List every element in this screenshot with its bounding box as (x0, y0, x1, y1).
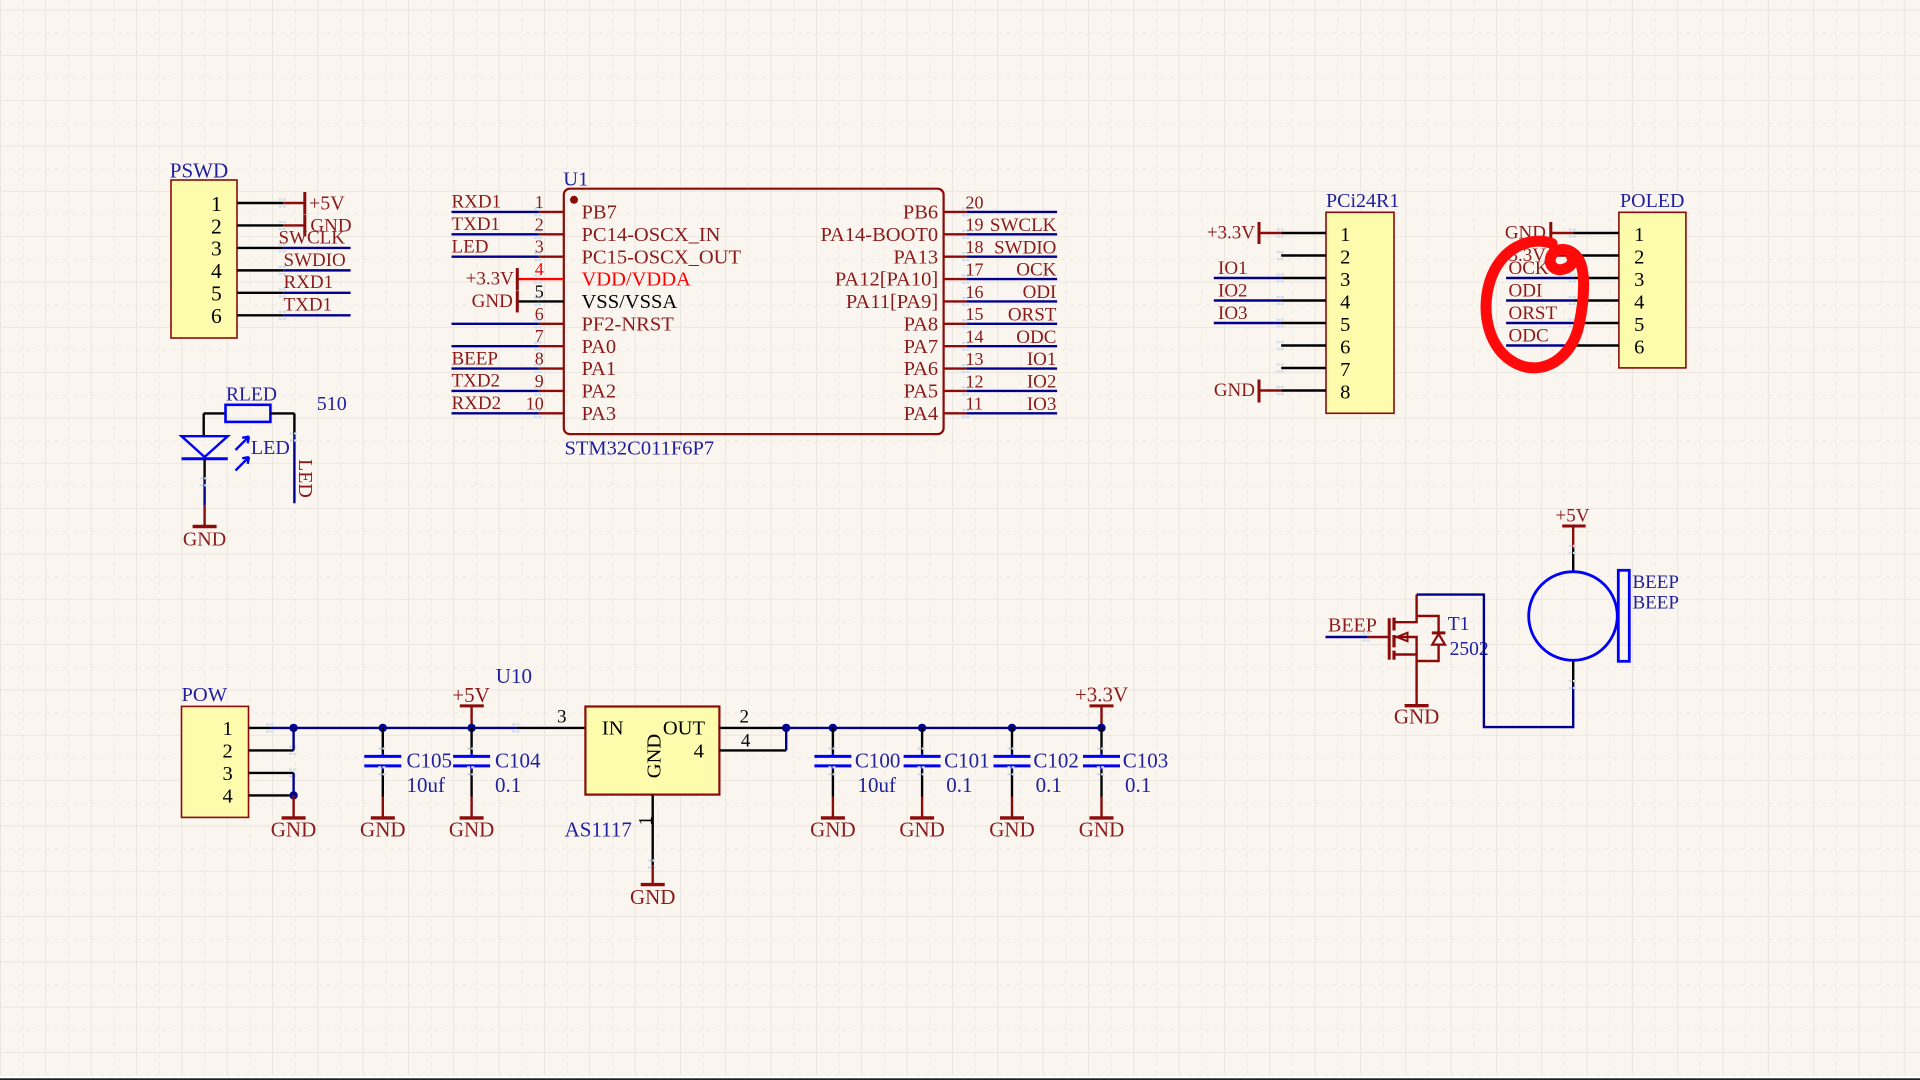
U1 pin 8 stub (539, 367, 564, 369)
U1 pin 6 stub (539, 323, 564, 325)
svg-text:2: 2 (211, 214, 222, 238)
U1 pin 9 stub (539, 390, 564, 392)
regulator U10 body (585, 707, 719, 795)
svg-text:GND: GND (472, 291, 513, 312)
svg-text:4: 4 (222, 786, 232, 808)
power port GND below U10 (630, 865, 676, 909)
resistor RLED body (226, 405, 271, 422)
svg-text:GND: GND (449, 818, 495, 842)
power port GND below C103 (1079, 797, 1125, 842)
LED D1 symbol (182, 436, 250, 470)
svg-text:PA0: PA0 (582, 336, 617, 358)
connector PSWD pin 5 wire (237, 292, 283, 294)
buzzer top stub (1572, 548, 1574, 572)
connector PCi24R1 body (1326, 212, 1394, 413)
svg-text:ODI: ODI (1023, 282, 1057, 303)
svg-text:+3.3V: +3.3V (466, 269, 514, 290)
capacitor C100 plates (814, 755, 851, 758)
wire at U1 pin 12 (967, 390, 1057, 392)
wire net TXD1 at U1 pin 2 (452, 233, 539, 235)
connector POLED body (1619, 212, 1686, 368)
svg-text:BEEP: BEEP (452, 348, 498, 369)
svg-text:BEEP: BEEP (1633, 572, 1679, 593)
capacitor C102 top lead (1011, 728, 1013, 753)
wire at U1 pin 13 (967, 367, 1057, 369)
junction node at U10 output (782, 724, 790, 732)
wire net RXD2 at U1 pin 10 (452, 412, 539, 414)
wire net ODC at POLED pin 6 (1506, 344, 1573, 346)
svg-text:AS1117: AS1117 (565, 818, 632, 842)
svg-text:SWDIO: SWDIO (284, 250, 346, 271)
connector PSWD pin 4 wire (237, 269, 283, 271)
svg-text:+5V: +5V (309, 192, 345, 214)
svg-text:13: 13 (966, 349, 984, 369)
svg-text:4: 4 (741, 731, 751, 752)
U1 pin 19 stub (944, 233, 967, 235)
wire at U1 pin 15 (967, 323, 1057, 325)
wire net ORST at POLED pin 5 (1506, 322, 1573, 324)
svg-text:1: 1 (222, 718, 232, 740)
wire net IO2 at PCi24R1 pin 4 (1214, 299, 1281, 301)
power port GND below POW (271, 795, 317, 841)
power port GND below C102 (989, 797, 1035, 842)
svg-text:STM32C011F6P7: STM32C011F6P7 (565, 438, 715, 460)
connector PCi24R1 pin 8 wire (1281, 389, 1326, 391)
svg-text:PB7: PB7 (582, 202, 617, 224)
capacitor C103 bottom lead (1100, 766, 1102, 770)
svg-text:C101: C101 (944, 749, 990, 773)
svg-text:C105: C105 (407, 749, 453, 773)
svg-text:RXD2: RXD2 (452, 393, 502, 414)
wire down from resistor right to net LED (293, 413, 295, 436)
wire at U1 pin 7 (452, 345, 539, 347)
svg-text:11: 11 (966, 394, 983, 414)
connector POLED pin 4 wire (1573, 299, 1619, 301)
power port GND at POLED (1505, 222, 1551, 244)
U1 pin 4 stub (539, 278, 564, 280)
power port +3.3V at PCi24R1 (1207, 222, 1259, 244)
svg-text:+3.3V: +3.3V (1075, 683, 1128, 707)
svg-text:VSS/VSSA: VSS/VSSA (582, 291, 678, 313)
wire POW pin3 to pin4 (292, 773, 294, 796)
svg-text:8: 8 (1340, 382, 1350, 404)
power port GND at U1 pin 5 (472, 290, 518, 312)
U1 pin 10 stub (539, 412, 564, 414)
svg-text:PA14-BOOT0: PA14-BOOT0 (820, 224, 938, 246)
svg-text:U10: U10 (496, 664, 532, 688)
svg-text:6: 6 (1634, 337, 1644, 359)
svg-text:RLED: RLED (226, 385, 277, 406)
connector PCi24R1 pin 3 wire (1281, 277, 1326, 279)
wire from LED cathode (203, 459, 205, 481)
U1 pin 13 stub (944, 367, 967, 369)
connector POW body (182, 706, 249, 817)
svg-text:PA12[PA10]: PA12[PA10] (835, 269, 938, 291)
svg-text:1: 1 (1340, 224, 1350, 246)
svg-text:4: 4 (1634, 292, 1644, 314)
buzzer BEEP body (1529, 570, 1630, 661)
svg-text:GND: GND (271, 818, 317, 842)
connector POW pin 1 wire (249, 727, 271, 729)
svg-text:LED: LED (251, 437, 290, 459)
wire at U1 pin 16 (967, 300, 1057, 302)
svg-text:PB6: PB6 (903, 202, 938, 224)
wire at U1 pin 20 (967, 211, 1057, 213)
connector POLED pin 3 wire (1573, 277, 1619, 279)
svg-text:GND: GND (360, 818, 406, 842)
svg-text:BEEP: BEEP (1633, 593, 1679, 614)
wire at U1 pin 19 (967, 233, 1057, 235)
U1 pin 11 stub (944, 412, 967, 414)
connector PSWD pin 3 wire (237, 247, 283, 249)
U10 GND pin wire (652, 795, 654, 866)
svg-text:PA3: PA3 (582, 403, 617, 425)
power port GND below LED (183, 505, 226, 551)
capacitor C103 plates (1083, 755, 1120, 758)
wire +5V rail (271, 727, 517, 729)
svg-text:GND: GND (644, 734, 666, 778)
connector PCi24R1 pin 6 wire (1281, 344, 1326, 346)
wire net SWCLK at PSWD pin 3 (283, 247, 350, 249)
U1 pin 14 stub (944, 345, 967, 347)
wire +3.3V to PCi24R1 pin 1 (1259, 232, 1281, 234)
capacitor C103 top lead (1100, 728, 1102, 753)
svg-text:IO1: IO1 (1218, 258, 1248, 279)
wire net BEEP (1326, 636, 1368, 638)
junction node at C104 (467, 724, 475, 732)
svg-text:3: 3 (1634, 269, 1644, 291)
wire at U1 pin 11 (967, 412, 1057, 414)
wire down to LED anode (202, 413, 204, 436)
svg-text:3: 3 (222, 763, 232, 785)
wire net SWDIO at PSWD pin 4 (283, 269, 350, 271)
svg-text:12: 12 (966, 371, 984, 391)
svg-text:TXD2: TXD2 (452, 371, 501, 392)
svg-text:GND: GND (989, 818, 1035, 842)
wire at U1 pin 14 (967, 345, 1057, 347)
wire U10 pin4 up to out rail (785, 728, 787, 751)
wire GND to U1 pin 5 (517, 300, 539, 302)
svg-text:T1: T1 (1448, 614, 1470, 635)
capacitor C100 top lead (832, 728, 834, 753)
wire from resistor RLED right (270, 412, 294, 414)
wire at U1 pin 6 (452, 323, 539, 325)
wire net IO3 at PCi24R1 pin 5 (1214, 322, 1281, 324)
svg-text:1: 1 (535, 192, 544, 212)
svg-text:+5V: +5V (1556, 506, 1590, 527)
svg-text:ORST: ORST (1008, 304, 1057, 325)
svg-text:6: 6 (1340, 337, 1350, 359)
connector POW pin 4 wire (249, 794, 294, 796)
power port GND at PSWD pin 2 (305, 214, 352, 236)
svg-text:15: 15 (966, 304, 984, 324)
svg-text:4: 4 (535, 259, 544, 279)
svg-text:SWCLK: SWCLK (990, 215, 1057, 236)
power port GND below C101 (899, 797, 945, 842)
U1 pin 18 stub (944, 255, 967, 257)
svg-text:5: 5 (1634, 314, 1644, 336)
svg-text:POW: POW (182, 684, 228, 706)
svg-text:OUT: OUT (663, 718, 706, 740)
wire +3.3V output rail (786, 727, 1101, 729)
svg-text:GND: GND (183, 529, 226, 551)
svg-text:10uf: 10uf (858, 773, 897, 797)
svg-text:SWCLK: SWCLK (279, 227, 346, 248)
U1 pin 17 stub (944, 278, 967, 280)
svg-text:PA1: PA1 (582, 358, 617, 380)
svg-text:LED: LED (294, 459, 316, 498)
svg-text:7: 7 (1340, 359, 1350, 381)
svg-text:2: 2 (1340, 247, 1350, 269)
svg-text:LED: LED (452, 236, 489, 257)
svg-text:C102: C102 (1033, 749, 1079, 773)
svg-text:VDD/VDDA: VDD/VDDA (582, 269, 692, 291)
svg-text:3: 3 (1340, 269, 1350, 291)
svg-text:2: 2 (222, 741, 232, 763)
svg-text:7: 7 (535, 326, 544, 346)
buzzer bottom stub (1572, 660, 1574, 685)
connector PSWD pin 1 wire (237, 202, 283, 204)
svg-text:ODC: ODC (1016, 327, 1056, 348)
svg-text:GND: GND (630, 885, 676, 909)
svg-text:PC15-OSCX_OUT: PC15-OSCX_OUT (582, 246, 742, 268)
junction node at C103 (1097, 724, 1105, 732)
wire GND to PCi24R1 pin 8 (1259, 389, 1281, 391)
svg-text:19: 19 (966, 215, 984, 235)
svg-text:IO3: IO3 (1027, 394, 1057, 415)
connector POLED pin 6 wire (1573, 344, 1619, 346)
U1 pin 12 stub (944, 390, 967, 392)
svg-text:U1: U1 (563, 168, 588, 190)
wire net RXD1 at U1 pin 1 (452, 211, 539, 213)
svg-text:ORST: ORST (1509, 303, 1558, 324)
capacitor C102 plates (994, 755, 1031, 758)
connector PSWD body (171, 180, 237, 338)
capacitor C104 plates (453, 755, 490, 758)
U10 pin 2 wire OUT (719, 727, 786, 729)
U1 pin 2 stub (539, 233, 564, 235)
svg-text:10: 10 (526, 393, 544, 413)
junction node at POW pin4 (289, 791, 297, 799)
svg-text:GND: GND (1214, 380, 1255, 401)
junction node at C100 (829, 724, 837, 732)
svg-text:0.1: 0.1 (946, 773, 972, 797)
svg-text:8: 8 (535, 349, 544, 369)
connector PCi24R1 pin 7 wire (1281, 367, 1326, 369)
wire at U1 pin 17 (967, 278, 1057, 280)
power port +3.3V above C103 (1075, 683, 1128, 728)
capacitor C104 top lead (470, 728, 472, 753)
junction node at POW pin1 (289, 724, 297, 732)
svg-text:PA11[PA9]: PA11[PA9] (846, 291, 938, 313)
power port GND below C104 (449, 797, 495, 842)
svg-text:C100: C100 (855, 749, 901, 773)
svg-text:5: 5 (211, 282, 222, 306)
svg-text:6: 6 (535, 304, 544, 324)
svg-text:10uf: 10uf (407, 773, 446, 797)
wire BEEP to T1 gate (1367, 636, 1388, 638)
svg-text:0.1: 0.1 (495, 773, 521, 797)
svg-text:2: 2 (535, 214, 544, 234)
svg-text:20: 20 (966, 192, 984, 212)
svg-text:5: 5 (535, 281, 544, 301)
svg-text:PA6: PA6 (904, 358, 939, 380)
connector PSWD pin 2 wire (237, 224, 283, 226)
connector PCi24R1 pin 1 wire (1281, 232, 1326, 234)
wire net LED vertical (293, 436, 295, 503)
svg-text:IO2: IO2 (1027, 372, 1057, 393)
svg-text:4: 4 (694, 740, 704, 762)
junction node at C102 (1008, 724, 1016, 732)
svg-text:4: 4 (1340, 292, 1350, 314)
power port GND at PCi24R1 (1214, 380, 1259, 403)
bottom window edge strip (0, 1076, 1920, 1079)
wire to GND from PSWD pin 2 (283, 224, 305, 226)
power port GND below C100 (810, 797, 856, 842)
capacitor C105 top lead (382, 728, 384, 753)
power port +3.3V at U1 pin 4 (466, 268, 518, 290)
svg-text:+3.3V: +3.3V (1207, 223, 1255, 244)
svg-text:PA4: PA4 (904, 403, 939, 425)
svg-text:4: 4 (211, 259, 222, 283)
svg-text:SWDIO: SWDIO (994, 237, 1056, 258)
capacitor C105 plates (364, 755, 401, 758)
svg-text:0.1: 0.1 (1036, 773, 1062, 797)
svg-text:PA7: PA7 (904, 336, 939, 358)
svg-text:GND: GND (810, 818, 856, 842)
capacitor C101 plates (904, 755, 941, 758)
wire net OCK at POLED pin 3 (1506, 277, 1573, 279)
IC U1 body (564, 189, 944, 434)
svg-text:1: 1 (636, 816, 657, 826)
svg-text:18: 18 (966, 237, 984, 257)
U1 pin 5 stub (539, 300, 564, 302)
wire net ODI at POLED pin 4 (1506, 299, 1573, 301)
capacitor C101 bottom lead (921, 766, 923, 770)
wire rail into U10 IN (517, 727, 586, 729)
svg-text:C103: C103 (1123, 749, 1169, 773)
svg-text:OCK: OCK (1016, 260, 1056, 281)
svg-text:GND: GND (1394, 705, 1440, 729)
svg-text:3: 3 (557, 707, 567, 728)
wire net TXD2 at U1 pin 9 (452, 390, 539, 392)
connector PCi24R1 pin 4 wire (1281, 299, 1326, 301)
connector POLED pin 2 wire (1573, 254, 1619, 256)
wire POW pin2 to rail (292, 728, 294, 751)
power port +3.3V at POLED (1498, 245, 1551, 267)
svg-text:IN: IN (602, 718, 624, 740)
svg-text:9: 9 (535, 371, 544, 391)
capacitor C102 bottom lead (1011, 766, 1013, 770)
svg-text:C104: C104 (495, 749, 541, 773)
U1 pin 20 stub (944, 211, 967, 213)
U1 pin 3 stub (539, 255, 564, 257)
wire into resistor RLED left (204, 412, 226, 414)
transistor T1 MOSFET symbol (1389, 595, 1445, 706)
wire +3.3V to U1 pin 4 (517, 278, 539, 280)
svg-text:PA8: PA8 (904, 313, 939, 335)
svg-text:PA13: PA13 (893, 246, 938, 268)
svg-text:3: 3 (211, 237, 222, 261)
wire GND to POLED pin 1 (1551, 232, 1573, 234)
svg-text:TXD1: TXD1 (284, 295, 333, 316)
U1 pin 16 stub (944, 300, 967, 302)
svg-text:IO3: IO3 (1218, 303, 1248, 324)
power port +5V above C104 (452, 683, 490, 728)
svg-text:0.1: 0.1 (1125, 773, 1151, 797)
junction node at C101 (918, 724, 926, 732)
svg-text:ODI: ODI (1509, 280, 1543, 301)
connector POLED pin 1 wire (1573, 232, 1619, 234)
svg-text:1: 1 (1634, 224, 1644, 246)
svg-text:16: 16 (966, 282, 984, 302)
connector POW pin 2 wire (249, 749, 294, 751)
IC U1 pin-1 marker dot (570, 196, 578, 204)
connector PCi24R1 pin 2 wire (1281, 254, 1326, 256)
svg-text:2: 2 (1634, 247, 1644, 269)
junction node at C105 (379, 724, 387, 732)
power port +5V above buzzer (1556, 506, 1590, 549)
svg-text:PA5: PA5 (904, 381, 939, 403)
wire net TXD1 at PSWD pin 6 (283, 314, 350, 316)
svg-text:PF2-NRST: PF2-NRST (582, 313, 675, 335)
svg-text:PSWD: PSWD (170, 158, 228, 182)
svg-text:1: 1 (211, 192, 222, 216)
svg-text:ODC: ODC (1509, 325, 1549, 346)
wire +3.3V to POLED pin 2 (1551, 254, 1573, 256)
svg-text:6: 6 (211, 304, 222, 328)
svg-text:PC14-OSCX_IN: PC14-OSCX_IN (582, 224, 721, 246)
connector POLED pin 5 wire (1573, 322, 1619, 324)
svg-text:OCK: OCK (1509, 258, 1549, 279)
svg-text:14: 14 (966, 327, 984, 347)
svg-text:RXD1: RXD1 (284, 272, 334, 293)
hand-drawn red circle annotation (1486, 241, 1584, 368)
svg-text:RXD1: RXD1 (452, 192, 502, 213)
capacitor C100 bottom lead (832, 766, 834, 770)
connector POW pin 3 wire (249, 772, 294, 774)
wire net IO1 at PCi24R1 pin 3 (1214, 277, 1281, 279)
svg-text:IO1: IO1 (1027, 349, 1057, 370)
power port GND below T1 (1394, 705, 1440, 729)
U1 pin 15 stub (944, 323, 967, 325)
svg-text:PA2: PA2 (582, 381, 617, 403)
U10 pin 4 wire (719, 749, 786, 751)
capacitor C104 bottom lead (470, 766, 472, 770)
power port +5V (305, 192, 345, 214)
svg-text:GND: GND (1079, 818, 1125, 842)
wire net BEEP at U1 pin 8 (452, 367, 539, 369)
wire net LED at U1 pin 3 (452, 255, 539, 257)
svg-text:TXD1: TXD1 (452, 214, 501, 235)
svg-text:17: 17 (966, 259, 984, 279)
svg-text:3: 3 (535, 237, 544, 257)
capacitor C101 top lead (921, 728, 923, 753)
power port GND below C105 (360, 797, 406, 842)
connector PCi24R1 pin 5 wire (1281, 322, 1326, 324)
U1 pin 1 stub (539, 211, 564, 213)
wire at U1 pin 18 (967, 255, 1057, 257)
svg-text:PCi24R1: PCi24R1 (1326, 190, 1399, 212)
connector PSWD pin 6 wire (237, 314, 283, 316)
svg-text:2: 2 (740, 707, 750, 728)
capacitor C105 bottom lead (382, 766, 384, 770)
svg-text:POLED: POLED (1620, 190, 1684, 212)
wire net to GND below LED (203, 481, 205, 505)
wire T1 drain to buzzer (1417, 595, 1574, 728)
svg-text:IO2: IO2 (1218, 280, 1248, 301)
svg-text:GND: GND (899, 818, 945, 842)
